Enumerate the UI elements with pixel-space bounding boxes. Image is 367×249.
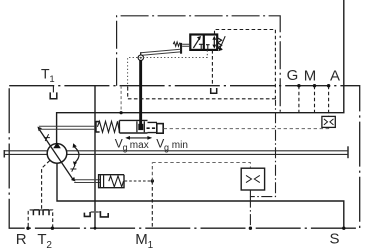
svg-text:M: M [304, 68, 317, 85]
valve right position: metering arrow [213, 39, 215, 46]
svg-text:g: g [123, 143, 128, 153]
lever spring [173, 42, 180, 46]
link rod to stroking piston (double gray line) [39, 126, 95, 129]
valve adjustable spring [217, 38, 221, 50]
node case drain bottom [94, 227, 97, 230]
stroking cylinder barrel [119, 120, 147, 133]
drive shaft (double line) [4, 146, 348, 158]
feedback lever shaft (thick bar) [139, 60, 142, 129]
node M1 junction [151, 179, 154, 182]
svg-text:2: 2 [46, 240, 52, 249]
optional line from orifice (dash-dot) [250, 100, 275, 197]
counter cylinder barrel [99, 175, 124, 188]
orifice box (drain) [241, 168, 264, 190]
node drain to bottom edge [249, 227, 252, 230]
wire: pressure line from pump outlet to top right [57, 0, 344, 144]
svg-text:M: M [135, 231, 148, 248]
swivel arc arrow [74, 147, 79, 163]
svg-text:max: max [130, 140, 149, 151]
pilot line junction down to port M1 (dashed) [151, 181, 153, 228]
plugged cup R branch [33, 210, 39, 215]
link rod to counter piston (double gray line) [74, 180, 100, 183]
pilot line A to stroking cylinder (gray dashed) [164, 128, 329, 130]
svg-text:g: g [164, 143, 169, 153]
node T2 [51, 227, 54, 230]
port T1 stub [52, 86, 54, 93]
gauge port M line (dashed) [314, 86, 316, 113]
pump housing enclosure (dash-dot) [9, 86, 360, 229]
svg-text:R: R [16, 231, 27, 248]
Vg max / Vg min double arrow [128, 137, 150, 139]
valve drain plugged port cup [211, 88, 217, 93]
node S [342, 227, 345, 230]
stop mark lower [70, 165, 76, 172]
svg-text:V: V [156, 137, 164, 151]
mechanical feedback line (dotted) [128, 50, 208, 87]
pilot line junction up and right to orifice (dashed) [151, 163, 153, 182]
valve right position: stub port [206, 45, 210, 50]
svg-text:T: T [37, 231, 46, 248]
rod side cap [157, 124, 163, 134]
pilot line valve top loop (dashed) [215, 30, 276, 100]
wire: suction line from pump bottom to port S [57, 163, 344, 228]
case line side plugs near x95 [91, 211, 94, 213]
control valve body [190, 35, 217, 50]
valve left position: blocked T [199, 44, 203, 49]
drain manifold to R and T2 (dashed) [28, 210, 53, 228]
counter spring [109, 176, 124, 187]
wire: case drain vertical line [94, 86, 96, 229]
stroking piston [137, 121, 144, 132]
hollow rod (dashed) [147, 127, 157, 129]
case drain from pump (dashed) [42, 161, 50, 210]
feedback lever (outlined bar) [141, 49, 181, 55]
pump circle [47, 144, 67, 164]
stroking cylinder: bias spring [97, 121, 119, 132]
svg-text:G: G [287, 67, 299, 84]
svg-text:S: S [330, 231, 340, 248]
plugged cup T2 branch [43, 210, 49, 215]
svg-text:1: 1 [49, 74, 54, 85]
pump flow triangle [53, 142, 61, 148]
stub below orifice [328, 127, 330, 128]
port T1 plugged cup [50, 92, 57, 98]
svg-text:min: min [172, 140, 188, 151]
lever end bracket [180, 43, 182, 54]
counter piston [100, 175, 103, 187]
control module enclosure (dash-dot) [117, 16, 281, 113]
pilot line to valve spring side (dashed) [128, 87, 276, 99]
stop mark upper [44, 134, 50, 141]
gauge port G line (dashed) [298, 86, 300, 113]
valve push rod (double line) [182, 44, 190, 46]
stroking cylinder: left flange [96, 121, 100, 133]
orifice box below A [322, 116, 335, 127]
svg-text:A: A [330, 68, 340, 85]
swashplate actuating arm (diagonal, arrows both ends) [39, 130, 73, 181]
valve left position: relief arrow [193, 38, 199, 48]
pilot tap from pressure line (gray dashed) [120, 86, 122, 113]
orifice symbol [246, 175, 260, 182]
svg-text:1: 1 [148, 240, 154, 249]
pilot line counter piston to M1 junction (dashed) [125, 180, 153, 182]
valve drain line (dashed) [211, 50, 213, 85]
port A line (dashed) [328, 86, 330, 117]
lever pivot [138, 55, 143, 60]
node R [26, 227, 29, 230]
